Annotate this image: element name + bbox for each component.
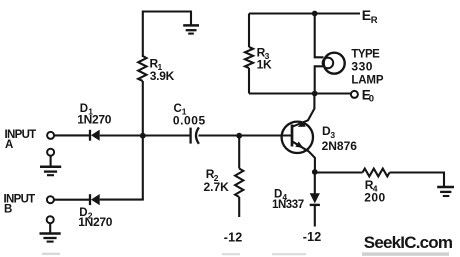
svg-text:3.9K: 3.9K: [150, 69, 175, 83]
node: collector/E0 junction dot: [312, 91, 318, 97]
wire: R2 to -12 stub: [238, 197, 240, 217]
node: emitter/D4/R4 junction dot: [312, 169, 318, 175]
label INPUT B: [4, 193, 36, 215]
capacitor C1: [191, 127, 199, 143]
label R2: [206, 167, 219, 183]
svg-text:A: A: [5, 139, 13, 151]
label C1: [174, 103, 187, 117]
label D3: [322, 124, 335, 140]
resistor R2: [235, 169, 243, 198]
label R3: [257, 45, 270, 61]
svg-text:-12: -12: [224, 230, 243, 244]
transistor D3 collector lead (to top node): [292, 94, 314, 127]
transistor D3 collector arrowhead: [298, 121, 306, 127]
wire: D4 to -12 stub: [314, 205, 316, 227]
node: base/R2 junction dot: [236, 133, 242, 139]
label INPUT A: [5, 129, 37, 151]
diode D4: [310, 193, 320, 205]
wire: R3 bottom to rail: [248, 68, 250, 94]
label ER: [362, 7, 378, 26]
node: D1/D2/C1 junction dot: [140, 133, 146, 139]
svg-text:B: B: [4, 204, 12, 216]
resistor R1: [138, 56, 146, 81]
wire: top rail to ER: [249, 12, 360, 14]
wire: lamp branch lower: [315, 66, 324, 93]
lamp big circle: [324, 53, 345, 74]
label D4: [274, 188, 287, 202]
label R4: [365, 178, 378, 194]
wire: bottom rail to E0: [249, 92, 351, 94]
diode D2: [90, 194, 100, 205]
wire: D2 to vertical elbow: [100, 199, 144, 201]
wire: input B to D2: [54, 199, 89, 201]
diode D1: [90, 130, 100, 141]
terminal E0: [351, 91, 358, 98]
label E0: [362, 88, 374, 105]
svg-text:2N876: 2N876: [322, 139, 358, 153]
svg-text:-12: -12: [303, 230, 322, 244]
wire: R1 top to ground elbow: [143, 12, 191, 58]
label D2: [79, 207, 92, 221]
svg-text:2.7K: 2.7K: [204, 180, 230, 194]
wire: input A to D1: [54, 134, 89, 136]
wire: D1 to node: [100, 134, 143, 136]
svg-text:1K: 1K: [257, 57, 272, 71]
lamp small circle: [323, 58, 334, 69]
svg-text:1N270: 1N270: [78, 215, 112, 229]
wire: junction to R4: [315, 171, 363, 173]
svg-text:200: 200: [364, 190, 386, 204]
wire: node to C1: [143, 134, 191, 136]
svg-text:1N337: 1N337: [272, 199, 304, 211]
wire: node down to R2: [238, 136, 240, 169]
svg-text:330: 330: [351, 59, 373, 73]
wire: R4 to ground: [390, 173, 445, 187]
terminal: input A: [47, 132, 54, 139]
svg-text:0.005: 0.005: [173, 113, 206, 127]
label R1: [150, 56, 163, 72]
svg-text:E: E: [362, 7, 371, 23]
transistor D3 circle: [282, 122, 313, 153]
svg-text:SeekIC.com: SeekIC.com: [364, 233, 453, 252]
node: top rail junction dot: [312, 11, 318, 17]
label D1: [80, 103, 93, 117]
ground: input A: [40, 149, 61, 176]
wire: node to transistor base: [239, 134, 291, 136]
svg-text:1N270: 1N270: [77, 112, 111, 126]
resistor R3: [245, 47, 253, 68]
terminal: input B: [47, 196, 54, 203]
wire: lamp branch upper: [315, 14, 324, 58]
transistor D3 emitter arrowhead: [295, 142, 303, 149]
wire: junction down to D4: [314, 172, 316, 194]
resistor R4: [363, 169, 390, 177]
wire: C1 to base node: [199, 134, 240, 136]
bottom edge scan smudges: [42, 252, 449, 255]
svg-text:R: R: [371, 15, 378, 26]
wire: left branch down to R3: [248, 14, 250, 48]
wire: R1 bottom to node, down to D2 elbow: [142, 81, 144, 200]
ground (top, R1 return): [183, 25, 199, 33]
svg-text:0: 0: [369, 93, 374, 104]
ground: input B: [40, 216, 61, 241]
svg-text:LAMP: LAMP: [351, 74, 383, 86]
transistor D3 base bar: [291, 125, 294, 147]
transistor D3 emitter lead (to bottom node): [292, 141, 315, 172]
ground (R4): [437, 187, 454, 196]
